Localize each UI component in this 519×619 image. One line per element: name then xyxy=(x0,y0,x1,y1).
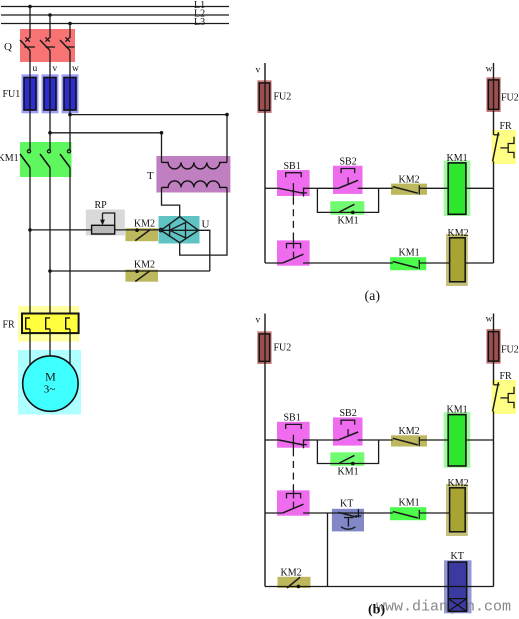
svg-text:v: v xyxy=(53,64,58,74)
svg-text:KM2: KM2 xyxy=(281,567,302,578)
svg-text:SB2: SB2 xyxy=(340,156,357,167)
svg-text:SB1: SB1 xyxy=(284,161,301,172)
svg-text:SB1: SB1 xyxy=(284,413,301,424)
svg-text:FU1: FU1 xyxy=(3,89,21,100)
svg-text:FU2: FU2 xyxy=(274,92,292,103)
svg-text:3~: 3~ xyxy=(44,384,56,396)
svg-text:KM1: KM1 xyxy=(447,405,468,416)
svg-text:KM1: KM1 xyxy=(399,498,420,509)
svg-text:KT: KT xyxy=(340,499,353,510)
svg-text:KM2: KM2 xyxy=(399,426,420,437)
svg-text:U: U xyxy=(202,219,210,231)
svg-text:v: v xyxy=(256,316,261,326)
svg-text:KM1: KM1 xyxy=(338,467,359,478)
svg-text:FR: FR xyxy=(500,371,513,382)
svg-text:KM1: KM1 xyxy=(399,248,420,259)
svg-text:(b): (b) xyxy=(368,603,385,618)
svg-text:(a): (a) xyxy=(365,289,381,304)
svg-text:FU2: FU2 xyxy=(501,93,519,104)
svg-text:RP: RP xyxy=(95,200,108,211)
svg-text:T: T xyxy=(147,170,154,182)
svg-text:KM1: KM1 xyxy=(338,215,359,226)
svg-text:w: w xyxy=(72,64,79,74)
svg-text:KT: KT xyxy=(451,551,464,562)
svg-text:KM1: KM1 xyxy=(447,153,468,164)
svg-text:w: w xyxy=(486,315,493,325)
svg-text:Q: Q xyxy=(4,41,12,53)
svg-text:SB2: SB2 xyxy=(340,408,357,419)
svg-text:KM2: KM2 xyxy=(134,260,155,271)
svg-text:w: w xyxy=(486,65,493,75)
svg-text:KM2: KM2 xyxy=(134,219,155,230)
svg-text:FU2: FU2 xyxy=(274,343,292,354)
svg-text:www.diangon.com: www.diangon.com xyxy=(376,599,511,616)
svg-text:FR: FR xyxy=(500,121,513,132)
svg-text:KM2: KM2 xyxy=(399,174,420,185)
svg-text:FU2: FU2 xyxy=(501,344,519,355)
svg-text:KM2: KM2 xyxy=(448,478,469,489)
svg-text:u: u xyxy=(33,64,38,74)
svg-text:FR: FR xyxy=(3,320,16,331)
svg-text:L3: L3 xyxy=(194,17,205,28)
svg-text:KM2: KM2 xyxy=(448,228,469,239)
svg-text:KM1: KM1 xyxy=(0,153,19,164)
svg-text:M: M xyxy=(45,370,56,384)
svg-text:v: v xyxy=(256,66,261,76)
